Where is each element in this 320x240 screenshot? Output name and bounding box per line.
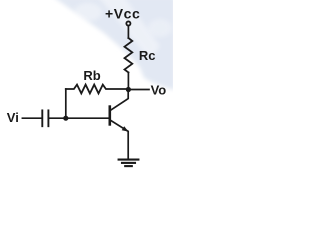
transistor Q1 emitter arrow <box>122 126 129 131</box>
wire Vcc to Rc <box>127 26 129 38</box>
wire Rb left leg down <box>65 89 67 118</box>
transistor Q1 base bar <box>109 107 112 125</box>
capacitor C1 right plate <box>47 110 49 126</box>
Vcc terminal circle <box>126 21 130 25</box>
svg-text:Vo: Vo <box>151 83 167 98</box>
resistor Rc <box>125 38 133 72</box>
resistor Rb <box>66 85 129 94</box>
watermark light streak <box>96 0 160 60</box>
watermark light blob <box>74 3 102 21</box>
transistor Q1 emitter lead <box>111 120 129 158</box>
node collector junction <box>126 87 131 92</box>
wire capacitor to base <box>49 117 108 119</box>
node base junction <box>63 116 68 121</box>
transistor Q1 collector lead <box>111 90 129 110</box>
svg-text:Rc: Rc <box>139 48 156 63</box>
svg-text:Rb: Rb <box>83 68 100 83</box>
capacitor C1 left plate <box>41 110 43 126</box>
svg-text:+Vcc: +Vcc <box>105 6 140 22</box>
ground <box>119 160 139 167</box>
wire to Vo <box>131 89 149 91</box>
watermark band top-right <box>52 0 175 90</box>
svg-text:Vi: Vi <box>7 110 19 125</box>
wire Vi to capacitor <box>22 117 41 119</box>
wire Rc to collector node <box>127 72 129 90</box>
